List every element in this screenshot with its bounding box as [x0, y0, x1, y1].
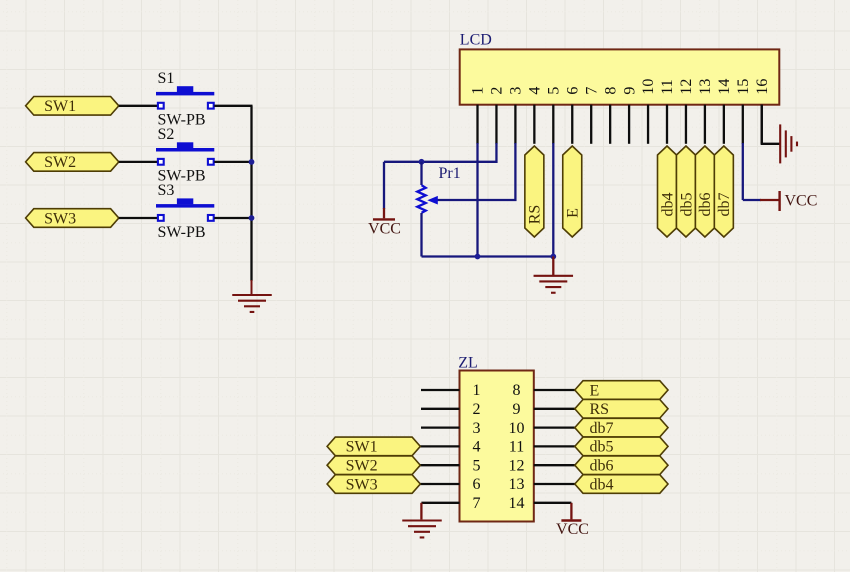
- svg-text:14: 14: [716, 79, 733, 95]
- svg-text:SW2: SW2: [346, 458, 378, 475]
- LCD pin 11: [659, 79, 676, 144]
- junction node S2/bus: [249, 159, 255, 165]
- svg-text:7: 7: [583, 87, 600, 95]
- svg-text:10: 10: [640, 79, 657, 95]
- svg-text:RS: RS: [590, 401, 610, 418]
- port db5: [676, 146, 695, 237]
- svg-text:9: 9: [513, 401, 521, 418]
- svg-text:8: 8: [513, 382, 521, 399]
- svg-text:1: 1: [470, 87, 487, 95]
- svg-text:LCD: LCD: [460, 32, 492, 49]
- wire ZL pin 9 to port RS: [534, 408, 576, 410]
- LCD pin 6: [564, 87, 581, 144]
- svg-text:db7: db7: [590, 420, 614, 437]
- LCD pin 3: [508, 87, 525, 144]
- wire port SW3 to ZL pin 6: [420, 483, 460, 485]
- svg-text:SW1: SW1: [44, 98, 76, 115]
- svg-text:db7: db7: [716, 193, 733, 217]
- svg-text:VCC: VCC: [556, 521, 589, 538]
- wire pin2 to top net: [384, 143, 496, 162]
- LCD pin 8: [602, 87, 619, 144]
- ZL pin number 12: [509, 457, 525, 474]
- svg-text:14: 14: [509, 495, 525, 512]
- designator S2 label: [158, 126, 175, 143]
- potentiometer Pr1: [417, 162, 438, 257]
- svg-text:5: 5: [473, 457, 481, 474]
- ground (Pr1 net): [534, 276, 574, 293]
- port db6 (ZL side): [575, 456, 668, 475]
- svg-text:VCC: VCC: [368, 220, 401, 237]
- svg-text:6: 6: [473, 476, 481, 493]
- svg-text:11: 11: [659, 79, 676, 94]
- svg-text:S1: S1: [158, 70, 175, 87]
- svg-text:E: E: [565, 208, 582, 218]
- junction node S3/bus: [249, 215, 255, 221]
- ground (LCD pin16): [780, 124, 797, 163]
- svg-text:SW3: SW3: [346, 476, 378, 493]
- svg-text:12: 12: [678, 79, 695, 95]
- power VCC (Pr1): [368, 219, 401, 237]
- LCD pin 14: [716, 79, 733, 144]
- wire pin1 to bottom net: [476, 143, 478, 257]
- connector ZL body: [460, 371, 534, 522]
- svg-text:db5: db5: [678, 193, 695, 217]
- svg-text:db4: db4: [659, 193, 676, 217]
- port RS: [525, 146, 544, 237]
- designator S1 label: [158, 70, 175, 87]
- power VCC (ZL pin14): [556, 521, 589, 539]
- wire to VCC (Pr1): [383, 162, 385, 219]
- svg-text:RS: RS: [527, 205, 544, 225]
- ZL pin number 2: [473, 401, 481, 418]
- svg-text:2: 2: [489, 87, 506, 95]
- svg-text:13: 13: [697, 79, 714, 95]
- wire port SW1 to ZL pin 4: [420, 445, 460, 447]
- port E (ZL side): [575, 381, 668, 400]
- svg-text:6: 6: [564, 87, 581, 95]
- svg-text:3: 3: [508, 87, 525, 95]
- designator LCD: [460, 32, 492, 49]
- LCD pin 4: [527, 87, 544, 144]
- connector LCD body: [460, 49, 780, 104]
- wire ZL pin 13 to port db4: [534, 483, 576, 485]
- svg-text:VCC: VCC: [785, 193, 818, 210]
- wire ZL pin 10 to port db7: [534, 426, 576, 428]
- value SW-PB label 2: [158, 168, 206, 185]
- port SW2 (ZL side): [327, 456, 420, 475]
- LCD pin 16: [754, 79, 771, 144]
- wire ZL pin7 to ground: [421, 503, 459, 520]
- wire pin5 to ground: [552, 257, 554, 276]
- bus wire (switch commons): [250, 106, 252, 294]
- svg-text:15: 15: [735, 79, 752, 95]
- svg-text:13: 13: [509, 476, 525, 493]
- power VCC (LCD pin15): [780, 191, 818, 211]
- designator S3 label: [158, 182, 175, 199]
- svg-text:db6: db6: [697, 193, 714, 217]
- LCD pin 5: [546, 87, 563, 144]
- ZL pin number 10: [509, 420, 525, 437]
- svg-text:11: 11: [509, 439, 524, 456]
- wire pin3 to wiper: [438, 143, 516, 200]
- ZL pin number 9: [513, 401, 521, 418]
- port E: [563, 146, 582, 237]
- svg-text:SW1: SW1: [346, 439, 378, 456]
- wire port SW2 to ZL pin 5: [420, 464, 460, 466]
- wire SW2 port to S2: [119, 161, 157, 163]
- ground (ZL pin7): [402, 521, 442, 538]
- svg-text:9: 9: [621, 87, 638, 95]
- wire pin16 to ground: [761, 105, 780, 144]
- ZL pin number 6: [473, 476, 481, 493]
- ZL pin 3 stub wire: [421, 426, 460, 428]
- wire S2 to bus: [214, 161, 252, 163]
- svg-text:SW3: SW3: [44, 210, 76, 227]
- port db4: [658, 146, 677, 237]
- svg-text:1: 1: [473, 382, 481, 399]
- junction pin1/bottom net: [475, 254, 481, 260]
- ZL pin number 7: [473, 495, 481, 512]
- port SW3 (switch input): [26, 209, 119, 228]
- svg-text:4: 4: [473, 439, 481, 456]
- junction pin5/bottom net: [550, 254, 556, 260]
- svg-text:ZL: ZL: [458, 354, 478, 371]
- wire pin15 to VCC: [743, 143, 779, 200]
- wire ZL pin 12 to port db6: [534, 464, 576, 466]
- svg-text:16: 16: [754, 79, 771, 95]
- ZL pin number 1: [473, 382, 481, 399]
- wire ZL pin 11 to port db5: [534, 445, 576, 447]
- svg-text:SW-PB: SW-PB: [158, 224, 206, 241]
- svg-text:12: 12: [509, 457, 525, 474]
- wire bottom net: [422, 255, 554, 257]
- designator ZL: [458, 354, 478, 371]
- wire SW1 port to S1: [119, 105, 157, 107]
- value SW-PB label 3: [158, 224, 206, 241]
- ZL pin number 11: [509, 439, 524, 456]
- wire SW3 port to S3: [119, 217, 157, 219]
- LCD pin 10: [640, 79, 657, 144]
- value SW-PB label 1: [158, 112, 206, 129]
- LCD pin 2: [489, 87, 506, 144]
- svg-text:7: 7: [473, 495, 481, 512]
- port SW3 (ZL side): [327, 475, 420, 494]
- port SW2 (switch input): [26, 153, 119, 172]
- switch S1 (SW-PB push button): [156, 86, 214, 108]
- svg-text:E: E: [590, 382, 600, 399]
- LCD pin 7: [583, 87, 600, 144]
- junction pot-top node: [419, 159, 425, 165]
- svg-text:SW2: SW2: [44, 154, 76, 171]
- port db4 (ZL side): [575, 475, 668, 494]
- port db5 (ZL side): [575, 437, 668, 456]
- svg-text:5: 5: [546, 87, 563, 95]
- svg-text:10: 10: [509, 420, 525, 437]
- ZL pin number 4: [473, 439, 481, 456]
- wire ZL pin 8 to port E: [534, 389, 576, 391]
- wire ZL pin14 to VCC: [534, 503, 572, 520]
- svg-text:S3: S3: [158, 182, 175, 199]
- port SW1 (ZL side): [327, 437, 420, 456]
- LCD pin 12: [678, 79, 695, 144]
- LCD pin 9: [621, 87, 638, 144]
- svg-text:2: 2: [473, 401, 481, 418]
- port SW1 (switch input): [26, 97, 119, 116]
- ZL pin number 14: [509, 495, 525, 512]
- svg-text:Pr1: Pr1: [439, 165, 461, 182]
- port db7 (ZL side): [575, 418, 668, 437]
- port db6: [695, 146, 714, 237]
- LCD pin 15: [735, 79, 752, 144]
- ZL pin 2 stub wire: [421, 408, 460, 410]
- port db7: [714, 146, 733, 237]
- port RS (ZL side): [575, 400, 668, 419]
- svg-text:db4: db4: [590, 476, 614, 493]
- LCD pin 13: [697, 79, 714, 144]
- ZL pin number 5: [473, 457, 481, 474]
- ZL pin number 8: [513, 382, 521, 399]
- ground (switch bus): [232, 295, 272, 312]
- svg-text:3: 3: [473, 420, 481, 437]
- LCD pin 1: [470, 87, 487, 144]
- wire pin5 to bottom net: [552, 143, 554, 257]
- svg-text:8: 8: [602, 87, 619, 95]
- wire S1 to bus: [214, 105, 252, 107]
- ZL pin number 13: [509, 476, 525, 493]
- svg-text:4: 4: [527, 87, 544, 95]
- wire S3 to bus: [214, 217, 252, 219]
- switch S2 (SW-PB push button): [156, 142, 214, 164]
- ZL pin number 3: [473, 420, 481, 437]
- switch S3 (SW-PB push button): [156, 198, 214, 220]
- svg-text:S2: S2: [158, 126, 175, 143]
- designator Pr1: [439, 165, 461, 182]
- svg-text:db6: db6: [590, 458, 614, 475]
- ZL pin 1 stub wire: [421, 389, 460, 391]
- svg-text:db5: db5: [590, 439, 614, 456]
